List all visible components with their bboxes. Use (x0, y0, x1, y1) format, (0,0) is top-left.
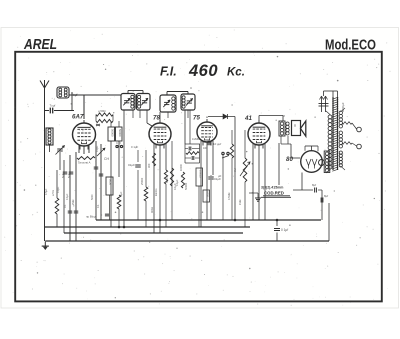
svg-text:AREL: AREL (23, 36, 57, 53)
svg-text:Smorzat A: Smorzat A (78, 161, 91, 165)
svg-text:400Ω: 400Ω (151, 207, 154, 213)
svg-text:1/2MΩ: 1/2MΩ (192, 138, 200, 141)
svg-text:0.1: 0.1 (63, 204, 67, 208)
svg-text:C O: C O (116, 141, 122, 145)
svg-text:50000: 50000 (118, 129, 122, 137)
svg-text:Tομf: Tομf (50, 104, 56, 108)
svg-text:F.I.: F.I. (160, 65, 177, 79)
svg-text:0.1μF: 0.1μF (66, 193, 69, 200)
svg-text:0.1μF: 0.1μF (57, 186, 60, 193)
svg-text:Elettro: Elettro (154, 188, 158, 196)
svg-text:10 μμf: 10 μμf (213, 142, 221, 146)
svg-text:0 1μF: 0 1μF (131, 145, 138, 149)
svg-text:25000: 25000 (140, 177, 144, 185)
svg-text:6A7: 6A7 (72, 114, 84, 121)
svg-text:ηη Blομf: ηη Blομf (86, 215, 97, 219)
svg-text:5000: 5000 (206, 192, 209, 198)
svg-text:0.5MΩ: 0.5MΩ (228, 192, 231, 200)
svg-text:μF: μF (218, 174, 222, 178)
svg-text:5000: 5000 (166, 177, 169, 183)
svg-text:0.5μF: 0.5μF (45, 188, 48, 195)
svg-text:8μF: 8μF (68, 173, 71, 178)
svg-text:80: 80 (286, 156, 293, 163)
svg-text:0.0005: 0.0005 (199, 170, 202, 178)
svg-text:0 1μf: 0 1μf (281, 228, 288, 232)
svg-text:50000: 50000 (111, 129, 115, 137)
svg-text:78: 78 (153, 115, 160, 122)
svg-text:8μF: 8μF (62, 173, 65, 178)
svg-text:Vol: Vol (233, 168, 237, 172)
svg-text:μ.50Ω: μ.50Ω (98, 109, 106, 113)
svg-text:01μF: 01μF (128, 163, 135, 167)
svg-text:1μF: 1μF (120, 191, 123, 196)
svg-text:a 5m: a 5m (51, 189, 55, 196)
svg-text:50000: 50000 (184, 182, 188, 190)
svg-text:0000μF: 0000μF (341, 102, 345, 112)
svg-text:1MΩ: 1MΩ (239, 200, 242, 205)
svg-text:0.1μF: 0.1μF (96, 145, 99, 152)
svg-text:75: 75 (193, 115, 200, 122)
svg-text:460: 460 (188, 62, 218, 80)
svg-text:0.1: 0.1 (97, 204, 100, 208)
svg-text:10000: 10000 (180, 163, 183, 171)
svg-text:COD.RED: COD.RED (264, 191, 284, 196)
svg-text:5000: 5000 (91, 194, 94, 200)
svg-text:2MΩ: 2MΩ (72, 200, 75, 205)
svg-text:41: 41 (244, 115, 252, 122)
svg-text:8μf: 8μf (324, 194, 328, 198)
svg-text:Kc.: Kc. (227, 67, 245, 79)
svg-text:300: 300 (147, 163, 151, 168)
svg-text:0050: 0050 (109, 179, 113, 185)
svg-text:0.1μF: 0.1μF (176, 179, 179, 186)
svg-text:8μf: 8μf (312, 183, 316, 187)
svg-text:CH: CH (104, 157, 109, 161)
svg-text:100: 100 (203, 147, 208, 150)
svg-text:3(3)2).415mm: 3(3)2).415mm (261, 186, 283, 190)
